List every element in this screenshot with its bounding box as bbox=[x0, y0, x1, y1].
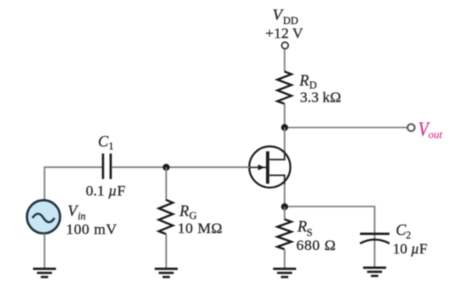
resistor RS bbox=[277, 219, 291, 249]
wire transistor source to source node bbox=[284, 184, 286, 207]
wire C1 to gate node to transistor bbox=[112, 166, 250, 168]
node source bbox=[281, 203, 288, 210]
transistor Q1 JFET bbox=[249, 146, 290, 187]
ground below Vin bbox=[33, 269, 56, 277]
wire drain node into transistor bbox=[284, 128, 286, 157]
svg-text:2: 2 bbox=[406, 230, 411, 241]
terminal VDD bbox=[282, 42, 289, 49]
wire Vin to ground bbox=[44, 233, 46, 268]
svg-text:+12 V: +12 V bbox=[265, 26, 303, 42]
svg-text:R: R bbox=[179, 203, 190, 220]
label Vout bbox=[418, 119, 443, 141]
svg-text:G: G bbox=[189, 211, 197, 222]
svg-text:3.3 kΩ: 3.3 kΩ bbox=[300, 90, 341, 106]
label VDD bbox=[265, 7, 303, 42]
wire Vin to C1 and gate wire bbox=[45, 167, 103, 200]
svg-text:100 mV: 100 mV bbox=[66, 222, 117, 238]
label Vin 100 mV bbox=[66, 203, 117, 238]
wire RG to ground bbox=[165, 234, 167, 269]
label RD 3.3 kOhm bbox=[299, 73, 342, 106]
resistor RG bbox=[159, 200, 173, 234]
svg-text:in: in bbox=[78, 211, 86, 222]
svg-text:0.1 µF: 0.1 µF bbox=[86, 184, 126, 200]
label RG 10 MOhm bbox=[178, 203, 223, 237]
svg-text:out: out bbox=[428, 129, 443, 141]
ground below RG bbox=[155, 269, 178, 277]
wire RS to ground bbox=[284, 249, 286, 268]
svg-text:10 MΩ: 10 MΩ bbox=[178, 221, 223, 237]
node drain bbox=[281, 124, 288, 131]
capacitor C1 bbox=[103, 154, 111, 180]
svg-text:10 µF: 10 µF bbox=[393, 241, 428, 257]
capacitor C2 bbox=[360, 234, 390, 244]
ground below RS bbox=[273, 269, 296, 277]
wire source node to C2 bbox=[285, 207, 375, 267]
wire VDD to RD bbox=[284, 49, 286, 72]
svg-text:1: 1 bbox=[109, 141, 114, 152]
label RS 680 Ohm bbox=[296, 219, 336, 254]
wire source node to RS bbox=[284, 207, 286, 220]
terminal Vout bbox=[408, 124, 415, 131]
svg-text:C: C bbox=[98, 133, 109, 150]
svg-text:R: R bbox=[299, 73, 310, 90]
node gate bbox=[163, 164, 170, 171]
wire gate node to RG bbox=[165, 167, 167, 200]
source Vin bbox=[27, 200, 60, 233]
label C2 10 uF bbox=[393, 222, 428, 257]
ground below C2 bbox=[363, 268, 386, 276]
wire drain node to Vout terminal bbox=[285, 127, 408, 129]
label C1 bbox=[98, 133, 114, 152]
wire RD to drain node bbox=[284, 103, 286, 127]
svg-text:680 Ω: 680 Ω bbox=[296, 238, 336, 254]
resistor RD bbox=[277, 72, 291, 104]
